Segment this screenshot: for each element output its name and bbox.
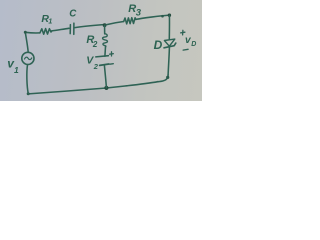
wire diode to bottom-right corner xyxy=(168,48,169,75)
diode D triangle xyxy=(164,39,174,46)
resistor R1 xyxy=(40,29,52,35)
label v1 xyxy=(7,57,19,76)
AC source V1 tilde xyxy=(25,57,32,59)
bottom-right corner curve xyxy=(158,75,168,82)
svg-text:2: 2 xyxy=(92,40,98,49)
wire node A down to R2 xyxy=(104,25,106,34)
node A junction dot xyxy=(103,23,107,27)
diode minus sign xyxy=(183,48,188,51)
svg-text:2: 2 xyxy=(93,62,99,71)
wire right side down to diode xyxy=(168,15,170,39)
svg-text:D: D xyxy=(191,41,196,48)
AC source V1 circle xyxy=(22,52,34,64)
wire C to node A xyxy=(75,25,104,28)
battery minus sign xyxy=(110,63,113,65)
label R3 xyxy=(128,3,142,19)
label V2 xyxy=(86,55,98,72)
svg-text:1: 1 xyxy=(48,18,52,25)
diode plus sign xyxy=(181,30,185,35)
wire R1 to C xyxy=(52,28,69,31)
top-right corner blob xyxy=(168,14,171,17)
bottom-left corner xyxy=(27,92,30,95)
label R1 xyxy=(41,13,52,25)
node B junction dot on bottom rail xyxy=(104,86,108,90)
wire top-left corner to R1 xyxy=(25,31,39,34)
svg-text:1: 1 xyxy=(14,65,19,75)
battery V2 top plate xyxy=(96,56,109,57)
label vD xyxy=(185,35,196,48)
wire battery V2 down to node B xyxy=(104,65,106,88)
wire bottom-left up to source V1 xyxy=(27,65,28,94)
top-left corner blob xyxy=(24,31,27,34)
bottom-right corner blob xyxy=(166,76,169,79)
resistor R2 curly xyxy=(103,34,108,47)
battery V2 bottom plate xyxy=(100,64,109,65)
label R2 xyxy=(86,34,98,49)
junction dot on wire near corner xyxy=(161,15,164,18)
diode D cathode bar xyxy=(164,43,176,48)
wire source V1 up to top-left corner xyxy=(25,32,28,52)
svg-text:D: D xyxy=(154,38,163,52)
battery plus sign xyxy=(110,52,114,56)
bottom rail wire xyxy=(28,82,158,94)
capacitor C left plate xyxy=(69,25,71,34)
svg-text:C: C xyxy=(69,9,77,20)
wire R2 to battery V2 xyxy=(104,47,107,56)
wire R3 to top-right corner xyxy=(136,15,169,19)
wire node A to R3 xyxy=(106,22,124,25)
resistor R3 xyxy=(124,18,136,24)
svg-text:3: 3 xyxy=(136,8,142,19)
capacitor C right plate xyxy=(73,23,75,34)
